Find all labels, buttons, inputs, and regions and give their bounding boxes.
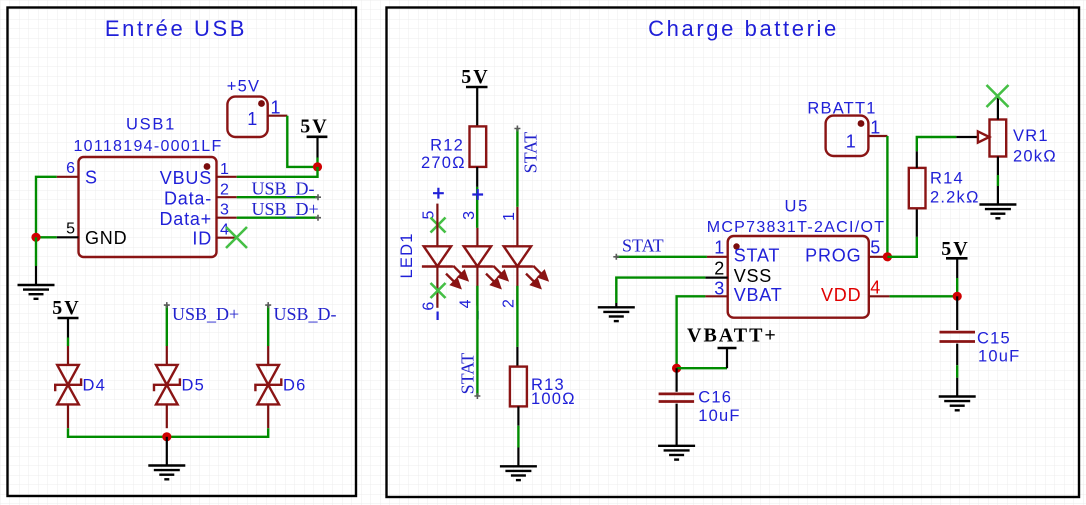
no-connect X on VR1 top xyxy=(987,85,1009,107)
USB1 pin name GND xyxy=(85,228,127,248)
wire +5V to junction xyxy=(287,116,317,167)
svg-text:1: 1 xyxy=(247,109,258,129)
svg-text:Data-: Data- xyxy=(164,189,212,209)
LED1 diode C pin 1 xyxy=(516,207,518,246)
D6 label xyxy=(283,377,307,395)
svg-text:3: 3 xyxy=(461,211,478,220)
USB1 pin 3 number xyxy=(220,202,229,219)
svg-text:USB_D-: USB_D- xyxy=(252,179,315,199)
svg-text:10uF: 10uF xyxy=(698,407,740,425)
svg-text:D5: D5 xyxy=(182,377,206,395)
U5 pin 1 STAT xyxy=(707,256,728,258)
U5 pin 3 number xyxy=(714,279,725,299)
svg-text:USB1: USB1 xyxy=(126,116,176,134)
svg-text:2: 2 xyxy=(500,299,517,308)
svg-text:Data+: Data+ xyxy=(159,209,212,229)
svg-text:C15: C15 xyxy=(977,330,1011,348)
svg-text:U5: U5 xyxy=(785,198,810,216)
svg-text:5V: 5V xyxy=(52,297,80,319)
LED1 pin 4 label xyxy=(457,299,474,308)
net label USB_D- above D6 xyxy=(274,304,337,324)
U5 pin 4 number xyxy=(870,278,881,298)
net label STAT at U5 xyxy=(622,236,664,256)
net label STAT top vertical xyxy=(521,132,541,174)
RBATT1 label xyxy=(807,100,876,118)
net label USB_D+ above D5 xyxy=(172,304,239,324)
svg-text:270Ω: 270Ω xyxy=(421,154,466,172)
svg-text:5: 5 xyxy=(421,211,438,220)
junction S GND node xyxy=(31,233,40,242)
power symbol 5V above D4 xyxy=(52,297,80,319)
+5V pin 1 number xyxy=(271,98,282,118)
LED1 pin 1 label xyxy=(501,212,518,221)
VR1 value 20kohm xyxy=(1013,148,1057,166)
wire VDD pin to junction xyxy=(890,295,958,297)
USB1 pin 4 ID xyxy=(217,237,237,239)
wire R14 to VR1 wiper xyxy=(917,137,978,151)
svg-text:1: 1 xyxy=(846,132,857,152)
+5V label xyxy=(227,78,260,96)
svg-text:C16: C16 xyxy=(698,389,732,407)
LED1 minus mark A xyxy=(437,312,439,321)
U5 pin name VDD xyxy=(821,285,861,305)
svg-text:3: 3 xyxy=(220,202,229,219)
5V bar xyxy=(307,136,328,139)
svg-text:ID: ID xyxy=(192,229,212,249)
svg-text:PROG: PROG xyxy=(805,246,861,266)
ground under VR1 xyxy=(979,205,1016,219)
net label anchor ticks xyxy=(164,126,620,400)
svg-text:R14: R14 xyxy=(930,170,964,188)
svg-text:1: 1 xyxy=(501,212,518,221)
net label STAT bottom vertical xyxy=(457,353,477,395)
svg-text:USB_D+: USB_D+ xyxy=(252,199,319,219)
svg-text:4: 4 xyxy=(870,278,881,298)
svg-text:3: 3 xyxy=(714,279,725,299)
wire junction to VBUS pin xyxy=(237,167,318,177)
VR1 label xyxy=(1013,127,1049,145)
svg-text:10uF: 10uF xyxy=(978,348,1020,366)
svg-text:STAT: STAT xyxy=(734,246,781,266)
IC U5 xyxy=(728,236,869,318)
svg-text:VBATT+: VBATT+ xyxy=(687,325,778,347)
C16 value 10uF xyxy=(698,407,740,425)
svg-text:STAT: STAT xyxy=(457,353,477,395)
USB1 pin 6 number xyxy=(66,160,75,177)
U5 pin 5 PROG xyxy=(869,256,888,258)
LED1 pin 6 label xyxy=(421,302,438,311)
svg-text:1: 1 xyxy=(870,118,881,138)
LED1 diode B arrows xyxy=(486,266,508,289)
svg-text:5V: 5V xyxy=(300,116,328,138)
svg-text:STAT: STAT xyxy=(622,236,664,256)
capacitor C15 xyxy=(940,296,976,365)
D4 label xyxy=(83,377,107,395)
resistor R13 xyxy=(510,367,527,426)
wire Data+ with net label xyxy=(237,216,318,218)
svg-text:D6: D6 xyxy=(283,377,307,395)
net label USB_D- xyxy=(252,179,315,199)
wire VR1 to ground xyxy=(997,175,999,205)
LED1 plus mark A xyxy=(433,188,444,199)
5V bar above R12 xyxy=(466,86,488,89)
VBATT+ label xyxy=(687,325,778,347)
svg-text:2.2kΩ: 2.2kΩ xyxy=(930,189,980,207)
wire PROG junction to R14 xyxy=(887,208,916,256)
svg-text:RBATT1: RBATT1 xyxy=(807,100,876,118)
power symbol RBATT1 xyxy=(826,116,869,156)
svg-text:+5V: +5V xyxy=(227,78,260,96)
resistor R14 xyxy=(909,151,926,208)
U5 pin 3 VBAT xyxy=(705,295,727,297)
power symbol 5V right xyxy=(941,238,969,260)
svg-text:5: 5 xyxy=(870,238,881,258)
svg-text:Charge batterie: Charge batterie xyxy=(648,16,839,41)
RBATT1 pin1 indicator dot xyxy=(858,120,865,127)
LED1 diode A xyxy=(422,246,453,307)
USB1 pin 1 VBUS xyxy=(217,176,237,178)
wire junction to VBATT+ xyxy=(677,348,727,368)
wire junction down to ground xyxy=(35,237,37,285)
USB1 value 10118194-0001LF xyxy=(73,138,222,155)
USB1 pin 1 number xyxy=(220,161,229,178)
C15 value 10uF xyxy=(978,348,1020,366)
LED1 diode C arrows xyxy=(526,266,548,289)
U5 pin 4 VDD xyxy=(869,295,890,297)
USB1 reference label xyxy=(126,116,176,134)
5V bar above D4 xyxy=(58,317,79,320)
svg-text:MCP73831T-2ACI/OT: MCP73831T-2ACI/OT xyxy=(707,219,886,236)
LED1 diode B xyxy=(462,246,493,305)
USB1 pin name S xyxy=(85,168,98,188)
svg-text:2: 2 xyxy=(714,259,725,279)
LED1 pin 2 label xyxy=(500,299,517,308)
USB1 pin 5 GND xyxy=(57,236,79,238)
U5 pin 5 number xyxy=(870,238,881,258)
no-connect X on LED1 pin 6 xyxy=(431,283,446,298)
5V bar right xyxy=(946,257,968,260)
svg-text:10118194-0001LF: 10118194-0001LF xyxy=(73,138,222,155)
diode D6 xyxy=(255,346,281,428)
wire R13 to ground xyxy=(517,426,519,467)
+5V pin 1 xyxy=(268,115,288,117)
diode D5 xyxy=(154,346,180,428)
ground under USB1 xyxy=(18,285,55,299)
R14 label xyxy=(930,170,964,188)
wire 5V down to VDD junction xyxy=(956,258,958,296)
wire 5V to R12 xyxy=(476,87,478,126)
LED1 diode B pin 3 xyxy=(476,228,478,246)
junction VDD xyxy=(953,292,962,301)
LED1 reference label vertical xyxy=(398,232,416,278)
wire RBATT1 to PROG junction xyxy=(886,136,888,257)
U5 pin name VBAT xyxy=(734,285,783,305)
power symbol 5V top left xyxy=(300,116,328,138)
resistor R12 xyxy=(470,126,487,186)
no-connect X on LED1 pin 5 xyxy=(431,218,446,233)
wire R12 to LED B xyxy=(476,187,478,228)
svg-text:STAT: STAT xyxy=(521,132,541,174)
power symbol +5V xyxy=(227,97,267,137)
sheet border Charge batterie xyxy=(387,8,1080,498)
C15 label xyxy=(977,330,1011,348)
svg-text:6: 6 xyxy=(66,160,75,177)
LED1 pin 3 label xyxy=(461,211,478,220)
USB1 pin name Data+ xyxy=(159,209,212,229)
wire LED B pin4 down STAT xyxy=(476,286,478,396)
U5 pin name PROG xyxy=(805,246,861,266)
svg-text:4: 4 xyxy=(457,299,474,308)
svg-text:LED1: LED1 xyxy=(398,232,416,278)
U5 pin 2 VSS xyxy=(705,277,727,279)
LED1 diode A pin 5 xyxy=(436,204,438,247)
wire U5 pin3 VBAT down xyxy=(677,296,706,368)
ground under U5 VSS xyxy=(598,307,635,321)
U5 pin name VSS xyxy=(734,266,772,286)
LED1 minus mark B xyxy=(477,311,479,320)
USB1 pin 2 number xyxy=(220,182,229,199)
R13 label xyxy=(531,376,565,394)
svg-text:1: 1 xyxy=(714,238,725,258)
wire C15 to ground xyxy=(956,365,958,396)
RBATT1 pin 1 number xyxy=(870,118,881,138)
U5 value MCP73831T-2ACI/OT xyxy=(707,219,886,236)
LED1 plus mark B xyxy=(472,189,483,200)
wire label to D5 xyxy=(166,305,168,346)
5V pin down xyxy=(316,137,318,167)
svg-text:1: 1 xyxy=(220,161,229,178)
ground under R13 xyxy=(500,466,537,480)
connector USB1 xyxy=(79,157,217,257)
svg-text:100Ω: 100Ω xyxy=(531,390,576,408)
net label USB_D+ xyxy=(252,199,319,219)
RBATT1 pin 1 xyxy=(868,135,887,137)
+5V pin1 indicator dot xyxy=(258,100,265,107)
svg-text:2: 2 xyxy=(220,182,229,199)
LED1 pin 5 label xyxy=(421,211,438,220)
USB1 pin1 indicator dot xyxy=(204,163,211,170)
wire STAT to LED C pin1 xyxy=(516,129,518,207)
svg-text:6: 6 xyxy=(421,302,438,311)
svg-text:USB_D+: USB_D+ xyxy=(172,304,239,324)
svg-text:GND: GND xyxy=(85,228,127,248)
junction +5V 5V VBUS xyxy=(313,162,322,171)
R13 value 100ohm xyxy=(531,390,576,408)
U5 pin name STAT xyxy=(734,246,781,266)
sheet title Charge batterie xyxy=(648,16,839,41)
wire diode bus xyxy=(68,428,268,437)
wire junction to ground xyxy=(166,437,168,466)
svg-text:VSS: VSS xyxy=(734,266,772,286)
USB1 pin name ID xyxy=(192,229,212,249)
no-connect X on USB1 pin 4 xyxy=(226,227,247,248)
ground under diode bus xyxy=(148,466,185,480)
ground under C15 xyxy=(939,397,976,411)
LED1 diode C xyxy=(502,246,533,305)
U5 pin 2 number xyxy=(714,259,725,279)
USB1 pin 5 number xyxy=(66,221,75,238)
wire GND pin to junction xyxy=(36,236,57,238)
USB1 pin 4 number xyxy=(220,222,229,239)
USB1 pin name Data- xyxy=(164,189,212,209)
sheet border Entrée USB xyxy=(8,8,357,497)
junction PROG xyxy=(883,252,892,261)
U5 pin1 indicator dot xyxy=(733,243,739,249)
R12 label xyxy=(430,137,464,155)
svg-text:D4: D4 xyxy=(83,377,107,395)
svg-text:VBUS: VBUS xyxy=(160,168,212,188)
svg-text:5: 5 xyxy=(66,221,75,238)
svg-text:VR1: VR1 xyxy=(1013,127,1049,145)
svg-text:S: S xyxy=(85,168,98,188)
D5 label xyxy=(182,377,206,395)
power symbol 5V above R12 xyxy=(461,66,489,88)
USB1 pin 2 Data- xyxy=(217,196,237,198)
wire U5 pin1 STAT left xyxy=(616,256,707,258)
svg-text:VBAT: VBAT xyxy=(734,285,783,305)
svg-text:1: 1 xyxy=(271,98,282,118)
U5 reference label xyxy=(785,198,810,216)
sheet title Entrée USB xyxy=(105,16,247,41)
+5V internal pin 1 label xyxy=(247,109,258,129)
svg-text:USB_D-: USB_D- xyxy=(274,304,337,324)
USB1 pin 3 Data+ xyxy=(217,217,237,219)
wire 5V to D4 xyxy=(67,318,69,346)
C16 label xyxy=(698,389,732,407)
wire S pin to junction xyxy=(36,177,57,238)
USB1 pin name VBUS xyxy=(160,168,212,188)
svg-text:20kΩ: 20kΩ xyxy=(1013,148,1057,166)
svg-text:5V: 5V xyxy=(941,238,969,260)
capacitor C16 xyxy=(659,368,695,446)
wire label to D6 xyxy=(267,305,269,346)
LED1 diode A arrows xyxy=(446,266,468,289)
power symbol VBATT+ bar xyxy=(718,347,737,350)
svg-text:5V: 5V xyxy=(461,66,489,88)
ground under C16 xyxy=(658,446,695,460)
R12 value 270ohm xyxy=(421,154,466,172)
R14 value 2.2kohm xyxy=(930,189,980,207)
USB1 pin 6 S xyxy=(57,176,79,178)
U5 pin 1 number xyxy=(714,238,725,258)
potentiometer VR1 xyxy=(978,96,1006,175)
junction VBAT C16 xyxy=(672,364,681,373)
diode D4 xyxy=(55,346,81,428)
wire Data- with net label xyxy=(237,196,318,198)
RBATT1 internal pin 1 label xyxy=(846,132,857,152)
svg-text:Entrée USB: Entrée USB xyxy=(105,16,247,41)
wire U5 pin2 VSS to ground xyxy=(616,278,705,308)
junction diode bus xyxy=(162,432,171,441)
wire LED C pin2 to R13 xyxy=(516,286,518,367)
svg-text:VDD: VDD xyxy=(821,285,861,305)
svg-text:R12: R12 xyxy=(430,137,464,155)
